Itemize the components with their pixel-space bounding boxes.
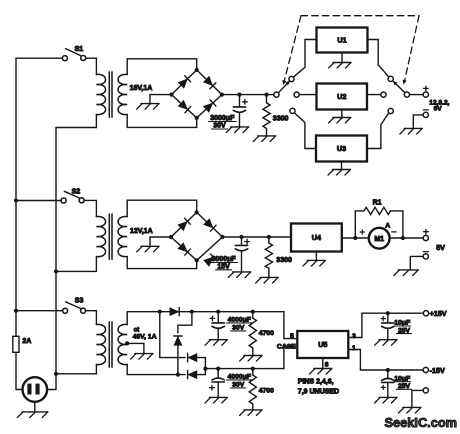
wire plug right lead	[47, 389, 56, 391]
svg-text:1: 1	[352, 345, 356, 352]
wire BR1 output rail	[222, 94, 274, 96]
dashed gang linkage top	[301, 15, 419, 17]
svg-text:U1: U1	[337, 36, 346, 45]
ground chassis terminal	[412, 390, 423, 407]
wire negative rail to U5 case	[284, 346, 297, 368]
diode BR2 upper-left	[178, 222, 187, 230]
svg-text:M1: M1	[374, 236, 384, 243]
wire U2 left pin	[299, 94, 316, 96]
svg-text:4700: 4700	[259, 387, 274, 394]
wire negative rail	[205, 368, 284, 370]
dashed gang linkage left	[284, 16, 301, 81]
wire S2 to T2 primary	[84, 200, 96, 216]
switch S4b contact U3	[388, 108, 393, 113]
diode BR1 upper-right	[204, 77, 212, 85]
node D1 anode junction	[158, 310, 162, 314]
ground C4	[209, 339, 227, 341]
switch S4b pole	[404, 92, 409, 97]
switch S4a contact U1	[289, 76, 294, 81]
node T3 center tap	[125, 341, 129, 345]
transformer T2 secondary winding 12V	[118, 217, 127, 257]
label M1 polarity and unit A	[360, 231, 364, 233]
wire T1 secondary bottom to bridge	[127, 115, 197, 128]
svg-text:5: 5	[290, 333, 294, 340]
wire D2 cathode elbow	[178, 312, 192, 333]
wire meter to output	[390, 237, 424, 239]
switch S4a contact U2	[294, 92, 299, 97]
svg-text:48V, 1A: 48V, 1A	[133, 334, 157, 341]
wire T3 secondary bottom rail	[127, 365, 178, 375]
wire left AC bus vertical	[15, 58, 17, 389]
ground plug	[34, 402, 36, 412]
svg-text:4700: 4700	[259, 330, 274, 337]
switch S4a wiper	[278, 82, 289, 93]
dashed gang linkage right	[405, 16, 419, 81]
node output - terminal 12V	[423, 112, 428, 117]
wire D2 anode to bottom rail	[177, 346, 179, 375]
svg-text:U4: U4	[312, 233, 321, 242]
node output terminal -15V	[423, 367, 428, 372]
capacitor C4 4000uF 30V positive	[216, 310, 220, 314]
transformer T1 primary winding	[96, 74, 105, 114]
resistor R5 4700	[251, 367, 255, 371]
op-amp regulator U4	[291, 224, 342, 252]
wire U5 pin 3 to +15V rail	[348, 313, 362, 337]
capacitor C5 4000uF 30V negative	[216, 367, 220, 371]
wire U4 output	[342, 237, 369, 239]
diode D1	[170, 308, 178, 315]
wire U1 left pin	[293, 40, 316, 78]
node negative rail junction	[203, 367, 207, 371]
node D2 bottom rail junction	[176, 373, 180, 377]
switch S4a contact U3	[290, 108, 295, 113]
diode BR2 lower-left	[178, 243, 187, 251]
transformer T2 primary winding	[96, 217, 105, 257]
wire S4b pole to output	[410, 94, 424, 96]
wire T2 secondary bottom to bridge	[127, 257, 197, 269]
transformer T1 secondary winding 18V	[118, 74, 127, 114]
switch S4b contact U2	[381, 92, 386, 97]
resistor R2 3300	[264, 93, 268, 97]
wire second AC bus vertical	[55, 128, 57, 390]
svg-text:U5: U5	[318, 340, 327, 349]
wire T3 primary bottom to bus2	[56, 365, 96, 374]
ground C7	[379, 396, 397, 398]
ground C1	[231, 126, 249, 128]
ground BR1 negative node	[150, 95, 172, 104]
capacitor C7 10uF 25V negative	[386, 368, 390, 372]
transformer T3 secondary winding 48V center tapped	[118, 324, 127, 364]
diode BR1 upper-left	[179, 79, 187, 87]
svg-text:U2: U2	[337, 92, 346, 101]
ground 5V - terminal	[410, 256, 423, 270]
wire D3 anode to negative node	[197, 358, 205, 375]
svg-text:18V,1A: 18V,1A	[130, 85, 153, 92]
wire D4 anode corner	[197, 374, 205, 376]
svg-text:3: 3	[352, 333, 356, 340]
ground BR2 negative node	[150, 237, 171, 246]
node chassis terminal	[423, 388, 428, 393]
svg-text:U3: U3	[337, 144, 346, 153]
ground U2	[341, 110, 343, 118]
svg-text:12V,1A: 12V,1A	[130, 228, 153, 235]
resistor R4 4700	[251, 310, 255, 314]
svg-text:3300: 3300	[273, 115, 289, 122]
wire U5 pin 1 to -15V rail	[348, 350, 423, 371]
op-amp regulator U1	[317, 28, 368, 53]
switch S4b contact U1	[388, 76, 393, 81]
svg-text:+15V: +15V	[430, 309, 447, 318]
ground R4	[244, 355, 262, 357]
wire bus to S2	[16, 200, 61, 202]
wire positive rail	[160, 311, 284, 313]
svg-text:ct: ct	[134, 326, 141, 333]
switch S4a pole	[274, 92, 279, 97]
pin 8 ground U5	[322, 358, 324, 369]
node BR2 right	[220, 235, 224, 239]
svg-text:R1: R1	[373, 199, 382, 206]
wire U3 right pin	[367, 113, 389, 149]
svg-text:6V: 6V	[434, 106, 443, 113]
node BR2 top	[195, 210, 199, 214]
capacitor C1 3000uF 30V	[237, 93, 241, 97]
wire T2 primary bottom to bus2	[56, 257, 96, 272]
transformer T3 primary winding	[96, 324, 105, 364]
node T2 primary return junction	[54, 269, 58, 273]
ground U3	[341, 162, 343, 170]
ground output - terminal	[413, 115, 423, 128]
wire plug left lead	[16, 389, 23, 391]
node output + terminal 5V	[423, 235, 428, 240]
wire T1 secondary top to bridge	[127, 59, 197, 75]
wire U3 left pin	[294, 113, 316, 149]
node meter right junction	[401, 236, 405, 240]
node BR1 bottom	[195, 116, 199, 120]
resistor R1 shunt loop	[354, 211, 356, 238]
wire S1 to T1 primary	[86, 58, 97, 74]
diode BR1 lower-right	[204, 104, 213, 112]
svg-text:PINS 2,4,6,: PINS 2,4,6,	[298, 378, 334, 385]
svg-text:5V: 5V	[436, 243, 445, 252]
svg-text:3300: 3300	[276, 257, 292, 264]
diode D3	[189, 354, 197, 361]
diode D4	[178, 374, 185, 376]
svg-text:8: 8	[325, 361, 329, 368]
ground center tap	[127, 343, 144, 353]
node meter left junction	[353, 236, 357, 240]
node T3 primary return junction	[54, 372, 58, 376]
svg-text:S1: S1	[75, 46, 84, 53]
svg-text:SeekIC.com: SeekIC.com	[385, 415, 458, 430]
transformer T3 core	[108, 322, 110, 367]
switch S4b wiper	[393, 81, 405, 92]
op-amp regulator U5	[297, 331, 348, 358]
fuse 2A	[13, 336, 19, 352]
switch S2	[61, 198, 66, 203]
node output - terminal 5V	[423, 254, 428, 259]
bridge rectifier BR2 frame	[171, 212, 223, 260]
svg-text:S2: S2	[72, 188, 81, 195]
svg-text:A: A	[385, 222, 390, 229]
node output + terminal 12V	[423, 92, 428, 97]
ground R2	[258, 135, 276, 137]
capacitor C6 10uF 25V	[386, 311, 390, 315]
svg-text:S3: S3	[75, 298, 84, 305]
svg-text:2A: 2A	[22, 338, 31, 345]
diode D2	[174, 337, 181, 345]
ground C5	[209, 396, 227, 398]
wire U1 right pin	[368, 40, 389, 78]
AC plug P1	[23, 377, 48, 402]
node BR1 right	[220, 93, 224, 97]
ground C6	[379, 339, 397, 341]
diode BR2 upper-right	[204, 219, 213, 227]
node S2 branch junction	[14, 198, 18, 202]
switch S3	[63, 308, 68, 313]
op-amp regulator U3	[316, 136, 367, 162]
node BR2 left	[169, 235, 173, 239]
node output terminal +15V	[423, 311, 428, 316]
ground U1	[341, 53, 343, 63]
ground R3	[260, 276, 278, 278]
wire U2 right pin	[367, 94, 381, 96]
wire bus to S1	[16, 57, 62, 59]
bridge rectifier BR1 frame	[172, 70, 222, 118]
svg-text:CASE: CASE	[277, 344, 296, 351]
node S3 branch junction	[14, 309, 18, 313]
node D1 cathode junction	[190, 310, 194, 314]
ground U4	[315, 252, 317, 261]
diode BR1 lower-left	[179, 101, 188, 109]
svg-text:7,9 UNUSED: 7,9 UNUSED	[298, 388, 339, 395]
node BR1 left	[169, 93, 173, 97]
transformer T2 core	[108, 214, 110, 259]
wire bus to S3	[16, 310, 63, 312]
switch S1	[62, 56, 67, 61]
ground R5	[244, 409, 262, 411]
wire positive rail to U5 pin 5	[284, 312, 297, 339]
wire +15V rail	[362, 312, 424, 314]
wire D3 branch from top AC node	[160, 312, 185, 358]
wire T2 secondary top to bridge	[127, 200, 197, 216]
svg-text:-15V: -15V	[430, 366, 445, 375]
op-amp regulator U2	[317, 84, 368, 110]
diode BR2 lower-right	[204, 258, 213, 266]
wire T1 primary bottom to bus2	[56, 115, 96, 128]
resistor R3 3300	[267, 235, 271, 239]
node BR2 bottom	[195, 258, 199, 262]
wire S3 to T3 primary	[86, 311, 97, 325]
capacitor C2 3000uF 15V	[239, 235, 243, 239]
ground C2	[233, 271, 251, 273]
transformer T1 core	[108, 72, 110, 117]
wire T3 secondary top to rail	[127, 312, 160, 325]
wire BR2 output to U4	[223, 236, 292, 238]
node BR1 top	[195, 68, 199, 72]
ammeter M1	[369, 228, 390, 249]
